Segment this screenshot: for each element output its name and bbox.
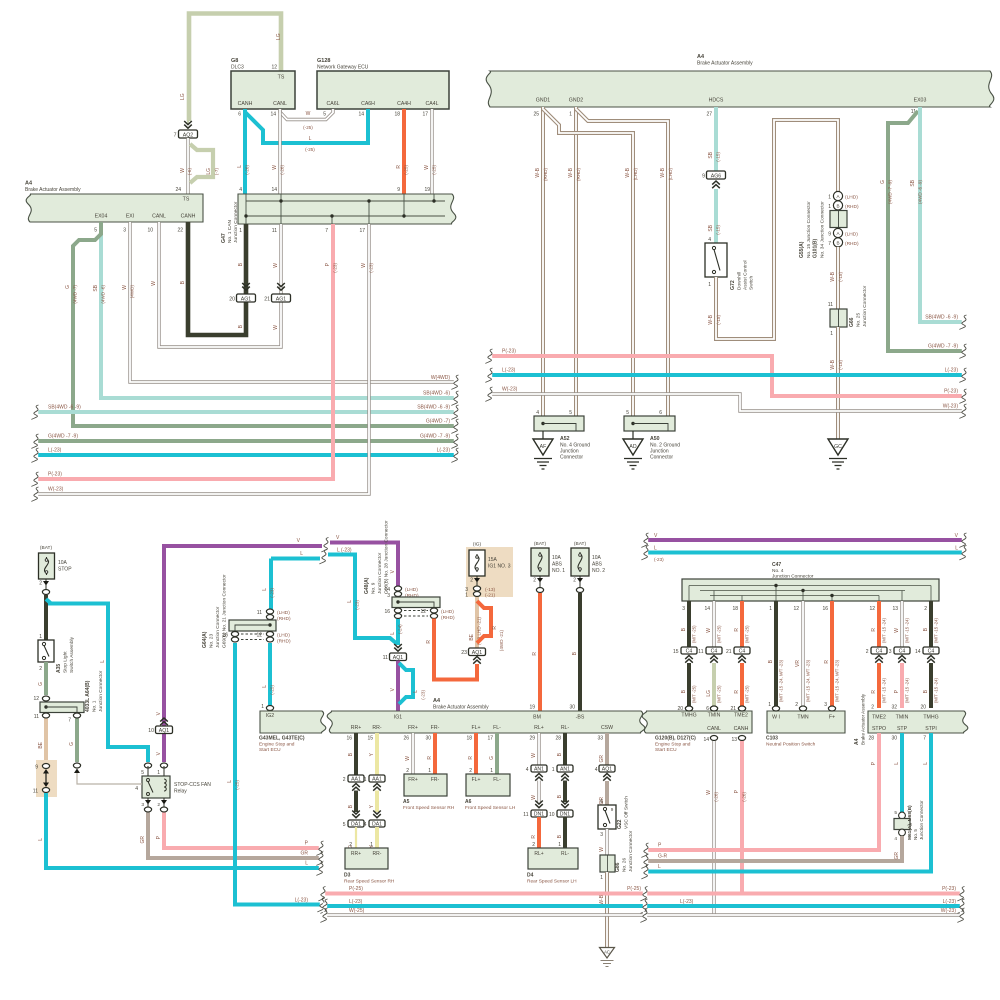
- svg-text:RR+: RR+: [351, 851, 361, 857]
- svg-text:W(-25): W(-25): [349, 908, 365, 914]
- svg-text:(M/T -15 -24): (M/T -15 -24): [905, 617, 910, 643]
- wire B column C47 pin 3 to G120 TMHG via C4: [681, 601, 697, 647]
- svg-text:(-7): (-7): [214, 168, 219, 176]
- connector AG1 (pin 21): [264, 283, 290, 303]
- svg-text:(4WD -21): (4WD -21): [499, 630, 504, 652]
- svg-text:Engine Stop and: Engine Stop and: [655, 742, 691, 748]
- wire column A4 RL- to D4 via AN1/DN1: [557, 733, 565, 765]
- svg-text:G86: G86: [615, 862, 621, 872]
- svg-text:L(-23): L(-23): [502, 368, 516, 374]
- svg-text:Front Speed Sensor LH: Front Speed Sensor LH: [465, 805, 516, 811]
- svg-text:12: 12: [793, 606, 799, 612]
- svg-text:G48(A): G48(A): [364, 577, 370, 594]
- svg-text:No. 26: No. 26: [622, 858, 628, 872]
- svg-text:(LHD): (LHD): [441, 609, 454, 615]
- svg-text:16: 16: [346, 736, 352, 742]
- wire VR C47 pin 12 to C103 TMN: [795, 601, 811, 711]
- svg-text:1: 1: [708, 282, 711, 288]
- svg-text:W: W: [706, 628, 712, 633]
- svg-text:Assist Control: Assist Control: [743, 260, 749, 290]
- svg-text:P(-25): P(-25): [349, 886, 363, 892]
- svg-text:D4: D4: [527, 873, 534, 879]
- svg-text:No. 1: No. 1: [92, 700, 98, 712]
- wire L from A4 STPI: [642, 733, 932, 879]
- svg-text:W: W: [361, 263, 367, 268]
- svg-text:5: 5: [323, 112, 326, 118]
- svg-text:No. 23: No. 23: [209, 634, 215, 648]
- svg-text:1: 1: [830, 331, 833, 337]
- svg-text:RR-: RR-: [373, 851, 382, 857]
- svg-text:14: 14: [358, 112, 364, 118]
- svg-text:CA4H: CA4H: [397, 101, 411, 107]
- junction connector G55(A)/G101(B): [799, 191, 859, 258]
- svg-text:B: B: [836, 203, 839, 208]
- svg-text:14: 14: [703, 737, 709, 743]
- svg-text:DLC3: DLC3: [231, 65, 244, 71]
- svg-text:DA1: DA1: [372, 821, 382, 827]
- svg-text:A50: A50: [650, 436, 660, 442]
- connector band A4 Brake Actuator Assembly (top right): [486, 54, 994, 118]
- wire GR from M61 to bus: [642, 836, 903, 869]
- svg-text:B: B: [836, 240, 839, 245]
- svg-text:W I: W I: [772, 715, 780, 721]
- junction connector G48(A)/G58(B): [364, 520, 455, 621]
- svg-text:CA6H: CA6H: [361, 101, 375, 107]
- wire L from G64 to G43MEL: [262, 643, 275, 711]
- ECU band G43MEL/G43TE Engine Stop and Start ECU: [259, 704, 326, 753]
- wire W-B (-15) to ground GC: [830, 327, 843, 439]
- svg-text:CANH: CANH: [734, 726, 749, 732]
- svg-text:1: 1: [769, 606, 772, 612]
- svg-text:(RHD): (RHD): [441, 615, 455, 621]
- svg-text:(4WD -6 -9): (4WD -6 -9): [918, 180, 923, 204]
- svg-text:W: W: [599, 847, 605, 852]
- relay STOP-CCS FAN: [135, 763, 211, 812]
- svg-text:5: 5: [894, 810, 897, 816]
- svg-text:EXI: EXI: [126, 214, 134, 220]
- svg-text:7: 7: [828, 241, 831, 247]
- wire B C47 pin 1 to C103 W I: [768, 601, 784, 711]
- svg-text:(-25): (-25): [305, 147, 315, 152]
- wire B from STOP fuse to A35: [44, 595, 48, 640]
- svg-text:DN1: DN1: [560, 811, 570, 817]
- svg-text:W-B: W-B: [660, 167, 666, 177]
- wire P(-23) bus top-right: [486, 349, 967, 404]
- wire P(-23) from G47 pin 7: [32, 224, 338, 487]
- svg-text:No. 1 CAN: No. 1 CAN: [227, 220, 233, 243]
- svg-text:L: L: [413, 690, 419, 693]
- svg-text:Downhill: Downhill: [737, 272, 743, 290]
- svg-text:R: R: [531, 835, 537, 839]
- svg-text:(RHD): (RHD): [277, 616, 291, 622]
- svg-text:W: W: [273, 325, 279, 330]
- svg-text:2: 2: [157, 802, 160, 808]
- svg-text:12: 12: [869, 606, 875, 612]
- svg-text:2: 2: [924, 606, 927, 612]
- sensor A5 Front Speed Sensor RH: [403, 774, 455, 811]
- svg-text:12: 12: [33, 696, 39, 702]
- connector AQ1 (pin 23): [461, 648, 485, 664]
- svg-text:AN1: AN1: [560, 766, 570, 772]
- wire L(-23) bus top-left: [32, 448, 459, 463]
- svg-text:G64(A): G64(A): [202, 631, 208, 648]
- svg-text:11: 11: [34, 714, 39, 720]
- svg-text:LG: LG: [180, 93, 186, 100]
- svg-text:23: 23: [461, 650, 467, 656]
- svg-text:BM: BM: [533, 715, 541, 721]
- svg-text:L: L: [38, 838, 44, 841]
- junction connector G64(A)/G69(B): [202, 574, 291, 648]
- svg-text:(M/T -15 -24): (M/T -15 -24): [882, 677, 887, 703]
- svg-text:G: G: [69, 742, 75, 746]
- svg-text:AG6: AG6: [711, 173, 721, 179]
- svg-text:4: 4: [708, 237, 711, 243]
- svg-text:AG1: AG1: [276, 296, 286, 302]
- svg-text:FL-: FL-: [493, 777, 501, 783]
- wire P(-25)/P(-23) bottom bus: [319, 886, 965, 901]
- svg-text:6: 6: [706, 706, 709, 712]
- svg-text:G(4WD -7 -9): G(4WD -7 -9): [928, 344, 958, 350]
- svg-text:P(-23): P(-23): [48, 472, 62, 478]
- svg-text:IG1: IG1: [394, 715, 402, 721]
- svg-text:20: 20: [677, 706, 683, 712]
- svg-text:(RHD): (RHD): [845, 241, 859, 247]
- svg-text:AF: AF: [540, 444, 547, 450]
- svg-text:(4WD): (4WD): [130, 285, 135, 299]
- svg-text:(-24): (-24): [398, 624, 403, 634]
- svg-text:TMIN: TMIN: [708, 713, 721, 719]
- svg-text:17: 17: [487, 736, 493, 742]
- svg-text:1: 1: [569, 112, 572, 118]
- svg-text:No. 25: No. 25: [856, 313, 862, 327]
- svg-text:(IG): (IG): [473, 542, 482, 548]
- svg-text:Junction Connector: Junction Connector: [628, 830, 634, 872]
- svg-text:(-25): (-25): [432, 165, 437, 175]
- svg-text:R: R: [734, 628, 740, 632]
- svg-text:STPI: STPI: [925, 726, 937, 732]
- svg-text:W: W: [531, 753, 537, 758]
- svg-text:6: 6: [238, 112, 241, 118]
- svg-text:14: 14: [704, 606, 710, 612]
- svg-text:(-23): (-23): [421, 690, 426, 700]
- sensor D3 Rear Speed Sensor RH: [344, 848, 395, 885]
- svg-text:W-B: W-B: [830, 359, 836, 369]
- svg-text:TMHG: TMHG: [681, 713, 696, 719]
- svg-text:GR: GR: [140, 836, 146, 844]
- svg-text:(-26): (-26): [714, 792, 719, 802]
- svg-text:SB(4WD -6 -9): SB(4WD -6 -9): [925, 315, 958, 321]
- svg-text:2: 2: [532, 842, 535, 848]
- svg-text:W: W: [894, 628, 900, 633]
- svg-text:L: L: [300, 551, 303, 557]
- svg-text:L: L: [309, 136, 312, 142]
- svg-text:R: R: [871, 690, 877, 694]
- svg-text:(-23): (-23): [355, 600, 360, 610]
- svg-text:C4: C4: [711, 648, 718, 654]
- svg-text:(BAT): (BAT): [40, 545, 53, 551]
- svg-text:W(-23): W(-23): [48, 487, 64, 493]
- wire W(-23) bus top-right: [486, 387, 967, 419]
- svg-text:ABS: ABS: [592, 562, 603, 568]
- svg-text:33: 33: [597, 736, 603, 742]
- switch A35 Stop Light Switch: [38, 634, 75, 673]
- svg-text:(LHD): (LHD): [277, 610, 290, 616]
- svg-text:Junction Connector: Junction Connector: [233, 201, 239, 243]
- ground AF: [533, 431, 553, 469]
- svg-text:9: 9: [397, 187, 400, 193]
- wire L cyan bus (right): [642, 546, 967, 563]
- svg-text:L: L: [262, 685, 268, 688]
- connector A52 No.4 Ground Junction Connector: [534, 410, 590, 461]
- svg-text:L: L: [955, 546, 958, 552]
- svg-text:G55(A): G55(A): [799, 241, 805, 258]
- svg-text:13: 13: [731, 737, 737, 743]
- svg-text:CANL: CANL: [273, 101, 287, 107]
- svg-text:NO. 2: NO. 2: [592, 568, 605, 574]
- wire V purple bus (right): [642, 533, 967, 548]
- svg-text:7: 7: [325, 228, 328, 234]
- svg-text:GND2: GND2: [569, 98, 584, 104]
- svg-text:G: G: [65, 285, 71, 289]
- wire L from inline connector to bus: [38, 793, 324, 876]
- svg-text:No. 15 Junction Connector: No. 15 Junction Connector: [806, 201, 812, 258]
- svg-text:21: 21: [264, 297, 270, 303]
- svg-text:3: 3: [682, 606, 685, 612]
- svg-text:11: 11: [523, 812, 528, 818]
- svg-text:LG: LG: [276, 33, 282, 40]
- svg-text:1: 1: [768, 702, 771, 708]
- svg-text:NO. 1: NO. 1: [552, 568, 565, 574]
- svg-text:FL+: FL+: [471, 725, 480, 731]
- svg-text:4: 4: [894, 836, 897, 842]
- svg-text:10: 10: [549, 812, 555, 818]
- svg-text:2: 2: [349, 842, 352, 848]
- svg-text:W(-23): W(-23): [502, 387, 518, 393]
- svg-text:C4: C4: [686, 648, 693, 654]
- svg-text:(-26): (-26): [245, 165, 250, 175]
- svg-text:SB(4WD -6): SB(4WD -6): [423, 391, 450, 397]
- svg-text:12: 12: [420, 609, 426, 615]
- wire BE from IG fuse: [469, 597, 482, 648]
- svg-text:18: 18: [466, 736, 472, 742]
- svg-text:AQ1: AQ1: [602, 766, 612, 772]
- connector AG1 (pin 20): [229, 283, 255, 303]
- svg-text:W(4WD): W(4WD): [431, 375, 450, 381]
- connector band A4 Brake Actuator Assembly (bottom center): [327, 698, 645, 742]
- svg-text:AN1: AN1: [534, 766, 544, 772]
- svg-text:P(-23): P(-23): [502, 349, 516, 355]
- svg-text:5: 5: [569, 410, 572, 416]
- svg-text:(4WD -6): (4WD -6): [101, 285, 106, 304]
- svg-text:FR-: FR-: [431, 777, 440, 783]
- svg-text:6: 6: [600, 799, 603, 805]
- svg-text:(LHD): (LHD): [845, 195, 858, 201]
- svg-text:2: 2: [533, 578, 536, 584]
- svg-text:FL-: FL-: [493, 725, 501, 731]
- svg-text:11: 11: [383, 655, 388, 661]
- fuse 10A STOP: [39, 545, 73, 595]
- svg-text:Connector: Connector: [560, 455, 583, 461]
- wire column A4 RR- to D3 via AA1/DA1: [369, 733, 377, 775]
- svg-text:1: 1: [552, 767, 555, 773]
- junction connector G66 No.25: [828, 285, 868, 337]
- svg-text:(RHD): (RHD): [845, 204, 859, 210]
- svg-text:Junction Connector: Junction Connector: [862, 285, 868, 327]
- svg-text:4: 4: [536, 410, 539, 416]
- svg-text:29: 29: [529, 736, 535, 742]
- svg-text:28: 28: [555, 736, 561, 742]
- svg-text:Rear Speed Sensor RH: Rear Speed Sensor RH: [344, 879, 395, 885]
- svg-text:FR+: FR+: [408, 725, 418, 731]
- svg-text:-BS: -BS: [576, 715, 585, 721]
- svg-text:GC: GC: [834, 444, 842, 450]
- svg-text:10A: 10A: [592, 555, 602, 561]
- svg-text:(-15): (-15): [838, 272, 843, 282]
- svg-text:21: 21: [730, 706, 736, 712]
- wire W/LG column C47 pin 14 to G120 TMIN via C4: [706, 601, 722, 647]
- switch band C103 Neutral Position Switch: [766, 711, 845, 748]
- svg-text:Junction Connector: Junction Connector: [215, 606, 221, 648]
- svg-text:Stop Light: Stop Light: [63, 651, 69, 673]
- svg-text:RL+: RL+: [534, 725, 544, 731]
- wire R from A4 FR- to A5: [427, 733, 435, 774]
- svg-text:BE: BE: [469, 633, 475, 640]
- svg-text:(-26): (-26): [280, 165, 285, 175]
- svg-text:A4: A4: [25, 181, 33, 187]
- svg-text:21: 21: [726, 649, 732, 655]
- wire R from A4 FL+ to A6: [468, 733, 476, 774]
- svg-text:1: 1: [558, 842, 561, 848]
- svg-text:(-25): (-25): [270, 685, 275, 695]
- svg-text:L: L: [390, 632, 396, 635]
- svg-text:2: 2: [866, 649, 869, 655]
- ground AC: [600, 948, 615, 967]
- wire B column C47 pin 2 to A4 TMHG via C4: [923, 601, 939, 647]
- svg-text:22: 22: [177, 228, 183, 234]
- svg-text:L(-23): L(-23): [349, 899, 363, 905]
- svg-text:(-15): (-15): [838, 360, 843, 370]
- svg-text:18: 18: [394, 112, 400, 118]
- wire G from A35 to A64B: [38, 662, 46, 695]
- svg-text:G: G: [489, 756, 495, 760]
- svg-text:11: 11: [33, 789, 38, 795]
- svg-text:9: 9: [611, 807, 614, 812]
- svg-text:G-R: G-R: [658, 854, 668, 860]
- svg-text:7: 7: [923, 736, 926, 742]
- svg-text:W(-23): W(-23): [943, 404, 959, 410]
- svg-text:W: W: [151, 281, 157, 286]
- svg-text:12: 12: [271, 65, 277, 71]
- svg-text:1: 1: [364, 777, 367, 783]
- wire P from A4 STPO: [642, 733, 880, 858]
- svg-text:11: 11: [257, 610, 262, 616]
- svg-text:12: 12: [256, 633, 262, 639]
- svg-text:(LHD): (LHD): [668, 168, 673, 181]
- svg-text:15: 15: [367, 736, 373, 742]
- svg-text:FR-: FR-: [431, 725, 440, 731]
- svg-text:L(-23): L(-23): [945, 368, 959, 374]
- svg-text:Brake Actuator Assembly: Brake Actuator Assembly: [25, 187, 81, 193]
- svg-text:SB(4WD -6 -9): SB(4WD -6 -9): [417, 405, 450, 411]
- wire V into G48: [390, 569, 396, 573]
- wire W/P column C47 pin 13 to A4 TMIN via C4: [894, 601, 910, 647]
- svg-text:A4: A4: [433, 698, 441, 704]
- svg-text:G101(B): G101(B): [813, 238, 819, 258]
- svg-text:(BAT): (BAT): [534, 541, 547, 547]
- svg-text:L: L: [262, 588, 268, 591]
- svg-text:G69(B) No. 21 Junction Connect: G69(B) No. 21 Junction Connector: [222, 574, 228, 648]
- svg-text:W: W: [180, 168, 186, 173]
- svg-text:4: 4: [364, 822, 367, 828]
- svg-text:2: 2: [871, 705, 874, 711]
- wire R (-25) CA4H down to G47 pin 9: [396, 109, 409, 194]
- wire W(-25) bottom bus: [321, 908, 965, 923]
- svg-text:W-B: W-B: [625, 167, 631, 177]
- svg-text:L: L: [237, 165, 243, 168]
- svg-text:W(-23): W(-23): [941, 908, 957, 914]
- svg-text:D3: D3: [344, 873, 351, 879]
- wire V to A4 IG1: [390, 661, 398, 712]
- svg-text:18: 18: [732, 606, 738, 612]
- svg-text:(4WD -7): (4WD -7): [73, 285, 78, 304]
- svg-text:4: 4: [595, 767, 598, 773]
- svg-text:FR+: FR+: [408, 777, 418, 783]
- junction connector C47 No.4: [682, 562, 939, 612]
- ECU band G120(B)/D127(C) Engine Stop and Start ECU: [642, 711, 752, 753]
- switch G72 Downhill Assist Control Switch: [705, 237, 755, 290]
- connector AQ1 (pin 11): [383, 644, 407, 661]
- svg-text:EX04: EX04: [95, 214, 108, 220]
- svg-text:TMN: TMN: [797, 715, 808, 721]
- wire SB (-15) from HDCS: [708, 107, 721, 171]
- wire W loop G47 pin 11 to A4 pin 10 via AG1: [151, 222, 281, 347]
- svg-text:28: 28: [868, 736, 874, 742]
- svg-text:Junction Connector: Junction Connector: [772, 574, 814, 580]
- svg-text:STP: STP: [897, 726, 908, 732]
- svg-text:(-23): (-23): [333, 263, 338, 273]
- svg-text:RL+: RL+: [534, 851, 543, 857]
- svg-text:LG: LG: [706, 690, 712, 697]
- svg-text:G22: G22: [617, 819, 623, 829]
- svg-text:16: 16: [822, 606, 828, 612]
- junction connector 4033L A64(B): [33, 670, 104, 723]
- svg-text:(-23): (-23): [369, 263, 374, 273]
- wire V purple bus (left): [156, 535, 398, 762]
- svg-text:AQ1: AQ1: [393, 655, 403, 661]
- svg-text:(4WD -7 -9): (4WD -7 -9): [888, 180, 893, 204]
- wire W(-23) from G47 pin 17: [32, 224, 374, 502]
- svg-text:7: 7: [174, 133, 177, 139]
- svg-text:CANH: CANH: [181, 214, 196, 220]
- svg-text:GR: GR: [301, 851, 309, 857]
- svg-text:(M/T -25): (M/T -25): [745, 685, 750, 703]
- wire R column C47 pin 12 to A4 TME2 via C4: [871, 601, 887, 647]
- connector A50 No.2 Ground Junction Connector: [624, 410, 680, 461]
- svg-text:W-B: W-B: [535, 167, 541, 177]
- svg-text:A5: A5: [403, 799, 410, 805]
- svg-text:G128: G128: [317, 58, 330, 64]
- svg-text:(-15): (-15): [716, 315, 721, 325]
- svg-text:W-B: W-B: [599, 894, 605, 904]
- svg-text:W: W: [273, 263, 279, 268]
- svg-text:R: R: [468, 756, 474, 760]
- svg-text:Junction Connector: Junction Connector: [377, 552, 383, 594]
- svg-text:L(-23): L(-23): [48, 448, 62, 454]
- svg-text:G43MEL, G43TE(C): G43MEL, G43TE(C): [259, 736, 305, 742]
- wire column A4 RR+ to D3 via AA1/DA1: [348, 733, 356, 775]
- svg-text:26: 26: [403, 736, 409, 742]
- svg-text:No. 5: No. 5: [913, 829, 918, 840]
